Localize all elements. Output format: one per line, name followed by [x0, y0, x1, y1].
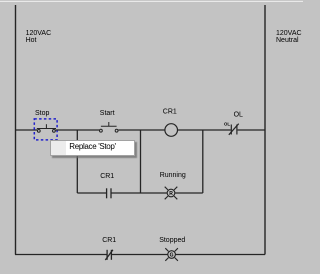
- tooltip Replace 'Stop': [50, 140, 135, 156]
- svg-text:120VAC: 120VAC: [26, 30, 52, 37]
- pushbutton NO Start: [100, 122, 119, 132]
- svg-text:Stop: Stop: [35, 110, 50, 117]
- wire seal-in branch right vertical: [140, 130, 142, 193]
- wire rung2: middle segment: [111, 192, 167, 194]
- wire rung1: Stop to Start: [56, 129, 100, 131]
- svg-text:R: R: [169, 191, 173, 197]
- wire rung3: lamp to right rail: [176, 254, 266, 256]
- relay coil CR1: [165, 124, 178, 137]
- wire seal-in branch left vertical: [76, 130, 78, 193]
- right rail (120VAC Neutral): [264, 5, 266, 255]
- svg-text:Start: Start: [100, 110, 115, 117]
- wire rung1: Start to CR1 coil: [118, 129, 165, 131]
- left rail (120VAC Hot): [15, 5, 17, 255]
- wire rung2: left segment: [77, 192, 106, 194]
- svg-text:CR1: CR1: [102, 237, 116, 244]
- pilot lamp Running (R): [165, 187, 178, 200]
- pushbutton NC Stop: [37, 124, 56, 132]
- svg-text:Stopped: Stopped: [159, 237, 185, 244]
- wire rung2: right segment: [175, 192, 203, 194]
- svg-text:G: G: [170, 252, 174, 258]
- wire rung3: contact to Stopped lamp: [111, 254, 167, 256]
- svg-text:120VAC: 120VAC: [276, 30, 302, 37]
- svg-text:OL: OL: [224, 122, 230, 127]
- svg-text:Neutral: Neutral: [276, 37, 299, 44]
- selection box around Stop: [34, 119, 57, 140]
- svg-text:Hot: Hot: [26, 37, 37, 44]
- pilot lamp Stopped (G): [165, 248, 178, 261]
- wire rung3: left rail to CR1 contact: [15, 254, 107, 256]
- overload contact OL (NC): [229, 124, 239, 135]
- wire rung1: coil to OL: [178, 129, 231, 131]
- svg-text:Running: Running: [160, 172, 186, 179]
- wire rung1: OL to right rail: [238, 129, 265, 131]
- svg-text:OL: OL: [234, 112, 243, 119]
- contact NC CR1: [105, 250, 113, 260]
- svg-text:CR1: CR1: [163, 109, 177, 116]
- wire lamp branch right vertical: [202, 130, 204, 193]
- wire rung1: left rail to Stop: [15, 129, 37, 131]
- contact NO CR1 seal-in: [107, 188, 111, 198]
- svg-text:CR1: CR1: [100, 173, 114, 180]
